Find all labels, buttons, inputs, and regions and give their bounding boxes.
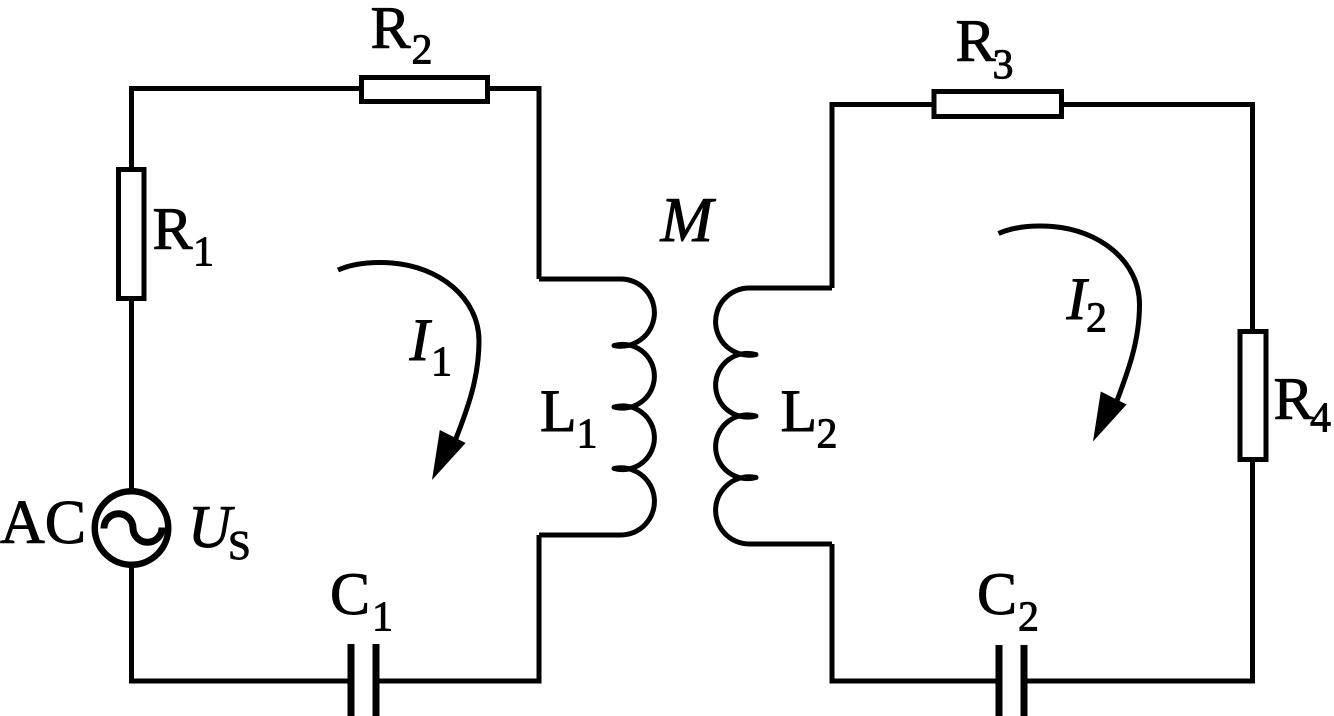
capacitor C1 left plate bbox=[348, 644, 355, 716]
svg-text:R: R bbox=[1274, 366, 1314, 432]
AC source sine wave bbox=[104, 514, 162, 542]
wire right vertical of left loop (lower) bbox=[537, 535, 542, 684]
svg-text:1: 1 bbox=[431, 340, 452, 386]
wire bottom rail right loop, right of C2 bbox=[1024, 679, 1253, 684]
svg-text:1: 1 bbox=[193, 230, 214, 276]
wire left vertical (through R1 and AC source) bbox=[129, 86, 134, 684]
svg-text:2: 2 bbox=[1086, 296, 1107, 342]
current arrow I1 shaft bbox=[338, 263, 479, 441]
wire left vertical of right loop (lower) bbox=[830, 544, 835, 684]
resistor R2 box bbox=[362, 78, 488, 102]
capacitor C2 right plate bbox=[1021, 645, 1028, 716]
wire bottom rail right loop, left of C2 bbox=[832, 679, 999, 684]
capacitor C1 right plate bbox=[373, 644, 380, 716]
svg-text:R: R bbox=[956, 8, 996, 74]
wire left vertical of right loop (upper) bbox=[830, 102, 835, 288]
svg-text:2: 2 bbox=[817, 412, 838, 458]
svg-text:4: 4 bbox=[1310, 396, 1331, 442]
svg-text:AC: AC bbox=[0, 489, 86, 557]
resistor R1 box bbox=[119, 170, 145, 299]
svg-text:L: L bbox=[781, 378, 818, 444]
AC source circle bbox=[95, 491, 169, 565]
inductor L2 coil bbox=[716, 288, 832, 544]
svg-text:C: C bbox=[330, 561, 370, 627]
svg-text:L: L bbox=[540, 378, 577, 444]
wire bottom rail left loop, right of C1 bbox=[376, 679, 539, 684]
svg-text:S: S bbox=[228, 522, 251, 568]
svg-text:1: 1 bbox=[372, 595, 393, 641]
current arrow I2 head bbox=[1093, 392, 1127, 442]
svg-text:R: R bbox=[371, 0, 411, 61]
wire bottom rail left loop, left of C1 bbox=[132, 679, 352, 684]
svg-text:2: 2 bbox=[412, 28, 433, 74]
capacitor C2 left plate bbox=[996, 645, 1003, 716]
svg-text:C: C bbox=[977, 561, 1017, 627]
wire top-left loop: top rail bbox=[129, 86, 539, 91]
svg-text:I: I bbox=[409, 307, 433, 373]
resistor R4 box bbox=[1240, 332, 1266, 460]
current arrow I1 head bbox=[432, 430, 466, 480]
svg-text:2: 2 bbox=[1018, 595, 1039, 641]
inductor L1 coil bbox=[539, 279, 654, 535]
wire right vertical of left loop (upper) bbox=[537, 86, 542, 279]
svg-text:3: 3 bbox=[993, 43, 1014, 89]
svg-text:M: M bbox=[660, 185, 717, 255]
resistor R3 box bbox=[934, 92, 1062, 117]
current arrow I2 shaft bbox=[999, 226, 1140, 404]
wire right vertical of right loop bbox=[1250, 102, 1255, 684]
svg-text:1: 1 bbox=[577, 412, 598, 458]
svg-text:R: R bbox=[153, 196, 193, 262]
wire top rail right loop bbox=[832, 102, 1253, 107]
